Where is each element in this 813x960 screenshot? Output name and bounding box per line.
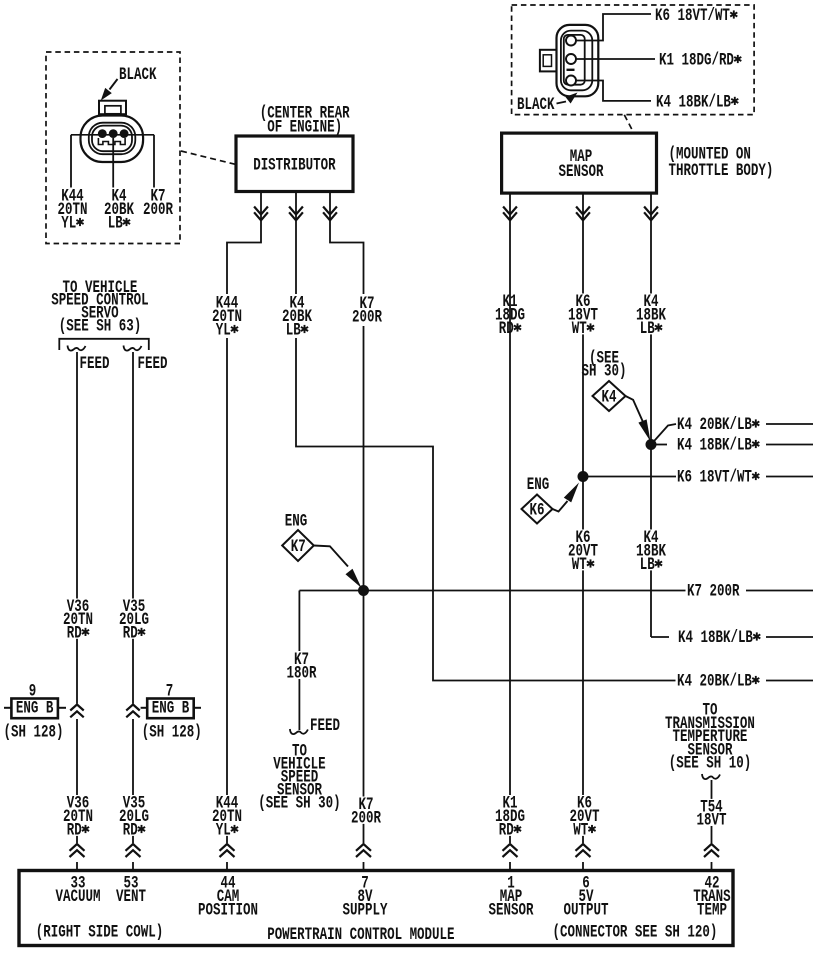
note TO VEHICLE SPEED CONTROL SERVO (SEE SH 63) bbox=[51, 277, 148, 336]
label K4 18BK LB* (wire) bbox=[635, 291, 668, 339]
svg-text:RD: RD bbox=[123, 820, 138, 841]
label FEED (K7 180R) bbox=[310, 715, 340, 736]
caption POWERTRAIN CONTROL MODULE bbox=[267, 924, 454, 945]
pin lead K4 (right connector) bbox=[576, 81, 651, 101]
svg-text:RD: RD bbox=[499, 318, 514, 339]
PCM pin 44 CAM POSITION bbox=[198, 873, 258, 921]
svg-text:DISTRIBUTOR: DISTRIBUTOR bbox=[253, 155, 336, 176]
wire K1 (MAP to PCM pin 1) bbox=[509, 292, 511, 871]
wire K7 200R (horizontal to right edge) bbox=[299, 590, 813, 592]
PCM pin 33 VACUUM bbox=[56, 873, 101, 907]
feed hook V35 bbox=[124, 346, 142, 351]
label K6 18VT/WT* (pin) bbox=[655, 5, 737, 26]
svg-text:200R: 200R bbox=[143, 199, 174, 220]
powertrain control module box bbox=[19, 871, 733, 946]
wire K6 18VT/WT* (row 3) bbox=[583, 476, 813, 478]
svg-text:LB: LB bbox=[108, 213, 123, 234]
label BLACK with arrow (right connector) bbox=[517, 93, 578, 115]
junction K7 200R bbox=[358, 585, 369, 596]
wire MAP pin K4 segment bbox=[644, 193, 658, 444]
svg-text:18VT: 18VT bbox=[697, 810, 727, 831]
label K44 20TN YL* (pin 1) bbox=[58, 186, 88, 234]
wire break above PCM (K1) bbox=[502, 843, 518, 862]
dashed leader line (right box to MAP sensor) bbox=[624, 115, 633, 132]
svg-text:K4 18BK/LB: K4 18BK/LB bbox=[677, 435, 752, 456]
svg-text:K7: K7 bbox=[291, 536, 306, 557]
label FEED (V36) bbox=[78, 353, 111, 374]
wire break above PCM (T54) bbox=[704, 843, 720, 862]
label V36 20TN RD* (lower) bbox=[62, 793, 95, 841]
svg-text:(SEE SH 63): (SEE SH 63) bbox=[59, 316, 141, 337]
svg-text:(RIGHT SIDE COWL): (RIGHT SIDE COWL) bbox=[36, 922, 163, 943]
feed hook K7 180R bbox=[290, 729, 308, 734]
svg-text:LB: LB bbox=[640, 554, 655, 575]
wire distributor pin K7 segment bbox=[323, 192, 363, 295]
label V36 20TN RD* (upper) bbox=[62, 596, 95, 643]
label K4 18BK/LB* (pin) bbox=[656, 91, 738, 112]
label V35 20LG RD* (upper) bbox=[118, 596, 151, 643]
svg-text:TEMP: TEMP bbox=[697, 900, 727, 921]
label K4 18BK LB* (mid) bbox=[635, 527, 668, 575]
connector detail box (dashed) bbox=[46, 52, 180, 244]
wire break above PCM (K44) bbox=[219, 843, 235, 862]
svg-text:K6 18VT/WT: K6 18VT/WT bbox=[677, 467, 752, 488]
wire K44 (to PCM pin 44) bbox=[226, 338, 228, 871]
svg-text:SENSOR: SENSOR bbox=[489, 900, 535, 921]
svg-text:(SEE SH 10): (SEE SH 10) bbox=[669, 753, 751, 774]
svg-text:FEED: FEED bbox=[138, 353, 168, 374]
svg-text:POWERTRAIN CONTROL MODULE: POWERTRAIN CONTROL MODULE bbox=[267, 924, 454, 945]
svg-text:SUPPLY: SUPPLY bbox=[343, 900, 388, 921]
label FEED (V35) bbox=[136, 353, 169, 374]
label V35 20LG RD* (lower) bbox=[118, 793, 151, 841]
svg-text:POSITION: POSITION bbox=[198, 900, 258, 921]
wire K4 20BK/LB* (top row) bbox=[651, 424, 813, 445]
wire T54 (to PCM pin 42) bbox=[711, 780, 713, 871]
note TO TRANSMISSION TEMPERTURE SENSOR (SEE SH 10) bbox=[665, 700, 755, 773]
feed hook V36 bbox=[68, 346, 86, 351]
svg-text:LB: LB bbox=[640, 318, 655, 339]
junction K6 18VT/WT bbox=[578, 471, 589, 482]
svg-text:K4 18BK/LB: K4 18BK/LB bbox=[678, 627, 753, 648]
svg-text:ENG B: ENG B bbox=[16, 698, 53, 719]
splice diamond K4 (SEE SH 30) bbox=[582, 348, 651, 442]
label K7 200R (wire) bbox=[351, 293, 384, 327]
caption (RIGHT SIDE COWL) bbox=[36, 922, 163, 943]
splice diamond ENG K7 bbox=[282, 511, 361, 588]
splice diamond ENG K6 bbox=[522, 474, 580, 523]
svg-text:K7 200R: K7 200R bbox=[687, 581, 740, 602]
label K7 200R (right) bbox=[686, 581, 742, 602]
label K4 18BK/LB* (row 5) bbox=[678, 627, 760, 648]
svg-text:RD: RD bbox=[67, 820, 82, 841]
wire K4 18BK/LB* (row 2) bbox=[651, 444, 813, 446]
svg-text:ENG: ENG bbox=[285, 511, 307, 532]
svg-text:OF ENGINE): OF ENGINE) bbox=[267, 117, 342, 138]
wire K7 (distributor to junction and PCM pin 7) bbox=[363, 326, 365, 871]
svg-text:K6: K6 bbox=[530, 500, 545, 521]
label K1 18DG RD* (lower) bbox=[494, 793, 527, 841]
label K1 18DG/RD* (pin) bbox=[659, 50, 741, 71]
svg-text:YL: YL bbox=[61, 213, 76, 234]
PCM pin 53 VENT bbox=[116, 873, 146, 907]
wire distributor pin K4 segment bbox=[289, 192, 303, 295]
svg-text:K4 20BK/LB: K4 20BK/LB bbox=[677, 671, 752, 692]
wire MAP pin K1 segment bbox=[503, 193, 517, 292]
svg-text:BLACK: BLACK bbox=[517, 94, 555, 115]
label BLACK with arrow (left connector) bbox=[101, 64, 157, 100]
note (MOUNTED ON THROTTLE BODY) bbox=[669, 144, 774, 181]
wire K7 180R branch bbox=[298, 591, 300, 731]
label T54 18VT bbox=[695, 796, 728, 830]
svg-text:LB: LB bbox=[286, 320, 301, 341]
connector detail box (dashed, right) bbox=[512, 5, 754, 115]
svg-text:YL: YL bbox=[216, 820, 231, 841]
wire K6 (junction to PCM pin 6) bbox=[582, 477, 584, 871]
wire MAP pin K6 segment bbox=[576, 193, 590, 476]
PCM pin 1 MAP SENSOR bbox=[489, 873, 535, 921]
svg-text:ENG: ENG bbox=[527, 474, 549, 495]
svg-text:THROTTLE BODY): THROTTLE BODY) bbox=[669, 160, 774, 181]
label K7 200R (lower) bbox=[350, 794, 383, 828]
label K7 180R bbox=[285, 649, 318, 683]
pin lead K1 (right connector) bbox=[576, 58, 655, 60]
svg-text:K4 20BK/LB: K4 20BK/LB bbox=[677, 414, 752, 435]
svg-text:K4 18BK/LB: K4 18BK/LB bbox=[656, 91, 731, 112]
label K4 20BK LB* (pin 2) bbox=[104, 186, 135, 234]
label K6 20VT WT* (mid) bbox=[567, 527, 600, 575]
svg-text:BLACK: BLACK bbox=[119, 64, 157, 85]
pin lead K7 (left) bbox=[153, 135, 155, 188]
bracket (servo destination) bbox=[59, 339, 149, 350]
svg-text:(SH 128): (SH 128) bbox=[4, 722, 64, 743]
svg-text:RD: RD bbox=[67, 622, 82, 643]
PCM pin 6 5V OUTPUT bbox=[564, 873, 609, 921]
label K6 18VT WT* (wire) bbox=[567, 291, 600, 339]
label K44 20TN YL* (lower) bbox=[211, 793, 244, 841]
note (CENTER REAR OF ENGINE) bbox=[260, 103, 351, 138]
pin lead K44 (left) bbox=[70, 135, 72, 188]
svg-text:WT: WT bbox=[573, 820, 588, 841]
svg-text:VENT: VENT bbox=[116, 886, 146, 907]
distributor box bbox=[236, 136, 353, 192]
splice ENG B 7 (SH 128) bbox=[141, 681, 202, 743]
wire break above PCM (K7) bbox=[356, 843, 372, 862]
label K7 200R (pin 3) bbox=[143, 186, 174, 220]
dashed leader line (left box to distributor) bbox=[181, 151, 236, 165]
junction K4 18BK/LB bbox=[646, 439, 657, 450]
label K1 18DG RD* (wire) bbox=[494, 291, 527, 339]
wire break above PCM (K6) bbox=[575, 843, 591, 862]
svg-text:WT: WT bbox=[572, 554, 587, 575]
label K6 20VT WT* (lower) bbox=[568, 793, 601, 841]
svg-text:RD: RD bbox=[123, 622, 138, 643]
wire K4 20BK/LB (distributor branch) bbox=[296, 338, 813, 681]
feed hook T54 bbox=[702, 774, 720, 779]
svg-text:K6 18VT/WT: K6 18VT/WT bbox=[655, 5, 730, 26]
wire break above PCM (V36) bbox=[69, 843, 85, 862]
svg-text:FEED: FEED bbox=[310, 715, 340, 736]
connector C2 body (3-pin, right) bbox=[540, 25, 598, 96]
MAP sensor box bbox=[502, 133, 657, 193]
pin lead K4 (left) bbox=[112, 138, 114, 188]
label K44 20TN YL* (wire) bbox=[211, 293, 244, 341]
pin lead K6 (right connector) bbox=[576, 14, 651, 41]
caption (CONNECTOR SEE SH 120) bbox=[553, 922, 718, 943]
svg-text:(SEE SH 30): (SEE SH 30) bbox=[258, 793, 340, 814]
svg-text:(SH 128): (SH 128) bbox=[142, 722, 202, 743]
label K4 20BK/LB* (top row) bbox=[677, 414, 759, 435]
svg-text:WT: WT bbox=[572, 318, 587, 339]
svg-text:200R: 200R bbox=[352, 307, 383, 328]
label K4 20BK/LB* (right, lower) bbox=[676, 671, 762, 692]
svg-text:K4: K4 bbox=[602, 387, 617, 408]
PCM pin 42 TRANS TEMP bbox=[693, 873, 730, 921]
note TO VEHICLE SPEED SENSOR (SEE SH 30) bbox=[258, 741, 340, 814]
connector C1 body (3-pin, left) bbox=[71, 101, 154, 162]
label K4 18BK/LB* (row 2) bbox=[677, 435, 759, 456]
svg-text:OUTPUT: OUTPUT bbox=[564, 900, 609, 921]
svg-text:SENSOR: SENSOR bbox=[559, 161, 605, 182]
svg-text:YL: YL bbox=[216, 320, 231, 341]
svg-text:180R: 180R bbox=[287, 663, 318, 684]
label K6 18VT/WT* (row 3) bbox=[677, 467, 759, 488]
label K4 20BK LB* (wire) bbox=[281, 293, 314, 341]
svg-text:(CONNECTOR SEE SH 120): (CONNECTOR SEE SH 120) bbox=[553, 922, 718, 943]
svg-text:200R: 200R bbox=[351, 808, 382, 829]
wire V36 bbox=[70, 352, 84, 871]
wire break above PCM (V35) bbox=[125, 843, 141, 862]
svg-text:ENG B: ENG B bbox=[152, 698, 189, 719]
wire distributor pin K44 segment bbox=[227, 192, 268, 295]
svg-text:K1 18DG/RD: K1 18DG/RD bbox=[659, 50, 734, 71]
wire V35 bbox=[126, 352, 140, 871]
wire K4 18BK/LB (junction to row 5) bbox=[651, 445, 813, 638]
svg-text:VACUUM: VACUUM bbox=[56, 886, 101, 907]
svg-text:FEED: FEED bbox=[80, 353, 110, 374]
svg-text:RD: RD bbox=[499, 820, 514, 841]
svg-text:SH 30): SH 30) bbox=[582, 361, 627, 382]
splice ENG B 9 (SH 128) bbox=[4, 681, 67, 743]
PCM pin 7 8V SUPPLY bbox=[343, 873, 388, 921]
